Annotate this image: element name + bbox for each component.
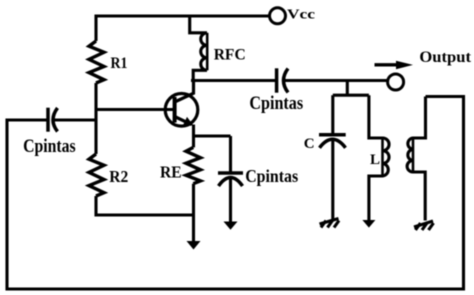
transistor Q1 emitter stroke (175, 117, 192, 125)
svg-text:R1: R1 (111, 55, 128, 72)
svg-text:Cpintas: Cpintas (245, 166, 298, 186)
capacitor C top wire (331, 95, 334, 135)
wire feedback right segment (54, 118, 96, 121)
svg-text:RE: RE (160, 162, 182, 181)
wire R2 bottom to emitter node (96, 196, 194, 215)
Vcc terminal circle (270, 8, 286, 24)
inductor RFC (190, 16, 207, 81)
capacitor Cpintas output curved plate (284, 69, 289, 93)
svg-text:R2: R2 (109, 167, 128, 186)
transistor Q1 collector stroke (175, 81, 194, 103)
resistor R1 (89, 41, 104, 83)
capacitor Cpintas feedback left plate (46, 108, 50, 132)
svg-text:Output: Output (419, 49, 471, 66)
capacitor C curved plate (320, 139, 346, 148)
transistor Q1 base bar (173, 97, 177, 123)
wire emitter to bypass cap (194, 134, 231, 137)
capacitor Cpintas bypass top wire (229, 136, 232, 173)
wire emitter down (192, 125, 195, 148)
wire top rail with R1 lead (96, 16, 269, 41)
svg-text:Vcc: Vcc (287, 7, 315, 22)
resistor R2 (89, 154, 104, 196)
capacitor Cpintas bypass straight plate (218, 171, 243, 175)
svg-text:Cpintas: Cpintas (23, 136, 76, 157)
wire feedback left segment (7, 118, 48, 121)
output terminal circle (388, 74, 404, 90)
wire tank stub (346, 81, 349, 96)
svg-text:Cpintas: Cpintas (249, 93, 303, 114)
capacitor Cpintas output left plate (275, 68, 279, 92)
wire tank bar (333, 94, 369, 97)
ground chassis below transformer (414, 221, 433, 227)
inductor L (369, 95, 389, 220)
svg-text:C: C (304, 136, 315, 152)
transistor Q1 emitter arrowhead (183, 117, 194, 126)
wire output rail (285, 79, 388, 82)
ground chassis below C (320, 219, 339, 225)
wire RE bottom to ground (192, 184, 195, 242)
capacitor Cpintas bypass curved plate (219, 178, 243, 187)
transistor Q1 circle (165, 94, 198, 127)
capacitor C bottom wire (331, 141, 334, 219)
ground arrow below L (362, 220, 375, 228)
svg-text:RFC: RFC (214, 47, 246, 64)
wire feedback-loop frame (left, bottom, right, top-right bar) (7, 97, 464, 290)
capacitor Cpintas feedback curved plate (53, 108, 58, 132)
wire collector rail (191, 79, 277, 82)
output arrowhead (396, 61, 413, 70)
transformer secondary coil (407, 97, 425, 221)
capacitor C straight plate (319, 133, 346, 137)
wire base (divider to transistor) (96, 108, 175, 111)
capacitor Cpintas bypass bottom wire (229, 179, 232, 222)
wire divider mid (R1 bottom to R2 top) (94, 83, 97, 154)
ground arrow below RE (187, 241, 201, 250)
svg-text:L: L (370, 152, 380, 168)
ground arrow below bypass cap (224, 222, 238, 230)
output arrow shaft (375, 63, 399, 66)
resistor RE (186, 147, 201, 183)
